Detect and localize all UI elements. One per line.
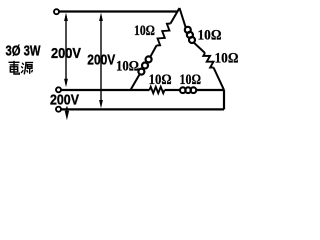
delta right edge mid segment [194, 43, 205, 53]
delta left edge upper segment [171, 8, 180, 24]
wire bottom phase [61, 108, 224, 110]
wire top phase [59, 10, 177, 12]
svg-text:200V: 200V [51, 45, 81, 62]
wire right riser to delta bottom-right vertex [223, 90, 225, 110]
delta left edge lower segment [131, 75, 140, 90]
resistor right-lower zigzag 10ohm [203, 53, 213, 68]
delta bottom side left segment [131, 89, 150, 91]
delta left edge mid segment [151, 46, 157, 57]
dimension arrow 200V top-to-bottom [99, 13, 103, 109]
svg-text:200V: 200V [87, 52, 115, 69]
svg-text:3Ø 3W: 3Ø 3W [6, 43, 42, 60]
wire middle phase to delta bottom-left vertex [61, 89, 130, 91]
delta bottom side right segment [165, 89, 180, 91]
svg-text:10Ω: 10Ω [149, 72, 172, 88]
resistor bottom coil 10ohm [180, 87, 196, 93]
svg-text:10Ω: 10Ω [215, 51, 239, 67]
label source kanji DEN (electric) [9, 61, 20, 74]
resistor left-lower coil 10ohm [138, 56, 151, 74]
terminal T2 (middle phase) [56, 87, 61, 92]
svg-text:10Ω: 10Ω [116, 59, 139, 75]
delta right edge lower segment [214, 68, 225, 90]
svg-text:10Ω: 10Ω [198, 28, 222, 44]
dimension arrowhead below bottom wire [65, 107, 69, 121]
terminal T3 (bottom phase) [56, 107, 61, 112]
resistor left-upper zigzag 10ohm [157, 24, 171, 46]
dimension arrow 200V top-to-middle [64, 13, 68, 88]
resistor bottom zigzag 10ohm [150, 87, 165, 93]
resistor right-upper coil 10ohm [185, 27, 195, 43]
label source kanji GEN (source) [21, 63, 33, 75]
svg-text:10Ω: 10Ω [180, 72, 202, 88]
delta right edge upper segment [180, 8, 186, 27]
terminal T1 (top phase) [54, 9, 59, 14]
svg-text:10Ω: 10Ω [134, 23, 155, 39]
svg-text:200V: 200V [50, 91, 79, 108]
